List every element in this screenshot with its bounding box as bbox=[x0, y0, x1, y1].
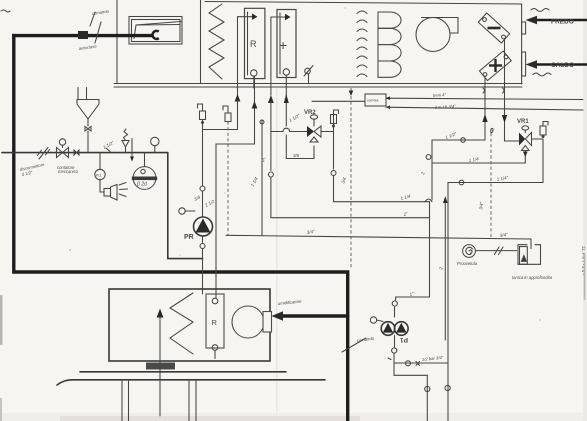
svg-text:CALDO: CALDO bbox=[551, 62, 574, 69]
svg-text:Prouvetula: Prouvetula bbox=[457, 261, 478, 266]
svg-text:PcL: PcL bbox=[96, 173, 102, 177]
svg-text:commut.: commut. bbox=[367, 99, 379, 103]
svg-text:R: R bbox=[250, 39, 257, 49]
svg-text:P1: P1 bbox=[400, 336, 408, 343]
svg-text:VR1: VR1 bbox=[517, 119, 529, 125]
svg-text:β 2d: β 2d bbox=[136, 182, 147, 188]
svg-text:treni 4": treni 4" bbox=[433, 92, 447, 98]
svg-text:PR: PR bbox=[184, 234, 194, 241]
svg-text:tanica in approfondita: tanica in approfondita bbox=[512, 275, 553, 280]
svg-text:VR2: VR2 bbox=[304, 110, 316, 116]
svg-text:FREDO: FREDO bbox=[551, 19, 574, 26]
svg-text:3/8: 3/8 bbox=[293, 153, 300, 158]
svg-text:+: + bbox=[279, 37, 287, 53]
svg-text:meccanico: meccanico bbox=[58, 169, 79, 174]
svg-text:R: R bbox=[212, 318, 218, 327]
